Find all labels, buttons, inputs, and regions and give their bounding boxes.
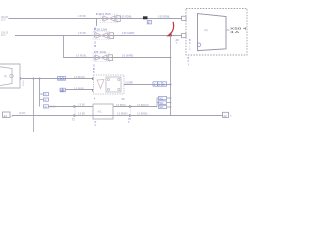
wire W2-W3 drop (vertical at x=63.5) [64, 36, 171, 58]
bus riser (vertical x=170.5 from W2 down to ground bus) [170, 36, 172, 116]
connector X1 wire colour (blue, vertical, inside-left) [189, 39, 191, 52]
wire W6 (relay output, y=84) [124, 84, 171, 86]
wire W4 (from B1, y=78.5) [20, 78, 94, 80]
relay K1 pin ticks [92, 78, 94, 81]
C-b label (blue, below) [128, 119, 131, 124]
svg-text:0.35 RD/BL: 0.35 RD/BL [158, 17, 171, 19]
W4 pin name (blue, vertical) [23, 81, 25, 87]
stubs to riser with junction dots [167, 98, 171, 107]
ground ref boxes left (three) [44, 93, 49, 109]
node label terminal 15 (left of wire 2) [1, 32, 9, 38]
svg-text:12: 12 [223, 114, 227, 118]
relay K1 contact block [106, 77, 121, 92]
relay K1 contact pins [107, 78, 120, 90]
splice S1 on wire W1 (dark) [143, 16, 148, 19]
ground ref boxes right (three) [157, 98, 159, 107]
fuse F3 output terminal box [108, 55, 112, 61]
stub node below wire W1 [96, 19, 98, 27]
svg-text:(2): (2) [4, 75, 7, 78]
connector X1 cavity circle [197, 43, 201, 47]
fuse F2 name (blue, vertical, below) [94, 41, 96, 48]
svg-text:44: 44 [4, 114, 8, 118]
connector X1 designation (dark) [226, 29, 230, 31]
svg-text:0.5 BR/W: 0.5 BR/W [116, 105, 127, 107]
fuse F2 (bowtie in dashed holder) [93, 31, 110, 39]
fuse F1 (bowtie in dashed holder) [101, 14, 118, 22]
fuse F1 output terminal box [116, 16, 120, 22]
stub node name (blue, vertical) [94, 27, 96, 34]
connector X1 housing (trapezoid) [198, 14, 227, 51]
svg-text:0.5 BR/WH: 0.5 BR/WH [137, 105, 149, 107]
svg-text:22.0: 22.0 [1, 20, 6, 22]
svg-text:A/C: A/C [98, 111, 102, 114]
ground bus wire (y=115) [12, 115, 223, 117]
svg-text:4 A: 4 A [230, 30, 239, 34]
W5 continuation number boxes [60, 88, 65, 92]
node label terminal 30 (top-left of wire 1) [1, 17, 9, 22]
svg-text:15A 30: 15A 30 [1, 32, 9, 35]
inline connector pair C-b (arrows) [129, 105, 132, 116]
W6 continuation number boxes [153, 82, 167, 86]
svg-text:30 BK: 30 BK [50, 106, 57, 108]
svg-text:0.35 BK: 0.35 BK [78, 16, 87, 18]
fuse F2 output terminal box [109, 33, 114, 39]
svg-text:(4x): (4x) [204, 30, 208, 32]
W4 pin tick [20, 77, 22, 80]
relay K1 coil (triangle) [97, 80, 104, 89]
fuse F3 (bowtie in dashed holder) [93, 53, 110, 61]
connector X1 pin 2 terminal box [182, 34, 187, 38]
svg-text:0.5 BR/BK: 0.5 BR/BK [137, 113, 148, 115]
ground drop G-a (vertical x=33) [33, 79, 35, 133]
ground point label box (right end) [223, 112, 229, 117]
fuse F3 name (blue, vertical, below) [93, 64, 95, 74]
svg-text:2.5 BR: 2.5 BR [78, 113, 85, 115]
wire W1 (top feed, y=18.5) [9, 18, 183, 20]
svg-text:0.5 BR: 0.5 BR [126, 82, 133, 84]
svg-text:0.35 BK: 0.35 BK [78, 33, 87, 35]
wire W8 (A/C to ground refs, y=106.5) [113, 106, 157, 108]
wire W7 (to A/C box, y=106.5) [49, 106, 94, 108]
inline connector pair C-a (arrows) [74, 105, 77, 116]
junction dot W6/riser [170, 84, 172, 86]
red annotation arrow [171, 22, 174, 33]
svg-text:502: 502 [159, 102, 164, 105]
svg-text:0.35 GN/BK: 0.35 GN/BK [122, 33, 135, 35]
stubs from branch drop to ground ref boxes [40, 94, 44, 100]
svg-text:0.35 RD/BL: 0.35 RD/BL [120, 17, 133, 19]
junction dot W3/riser [170, 57, 172, 59]
svg-text:30 BK: 30 BK [19, 113, 26, 115]
connector X1 (dashed outline, right) [186, 9, 247, 56]
svg-text:0.5 RD/BL: 0.5 RD/BL [76, 56, 87, 58]
M1 name (blue, vertical, below) [95, 121, 97, 127]
svg-text:B: B [94, 44, 96, 48]
svg-text:0.5 BK/BL: 0.5 BK/BL [74, 89, 85, 91]
branch drop (vertical x=39.5) [39, 79, 41, 107]
wire W5 (second relay feed, y=90) [66, 89, 94, 91]
component box B1 (left, with connector face) [0, 64, 20, 88]
B1 connector face (trapezoid) [0, 67, 12, 86]
component box M1 (A/C actuator) [93, 104, 113, 119]
svg-text:0.5 BR/BK: 0.5 BR/BK [117, 113, 128, 115]
svg-text:504: 504 [60, 90, 65, 93]
svg-text:0.5 BK/GN: 0.5 BK/GN [74, 77, 85, 79]
junction dot W4/G-a [33, 78, 35, 80]
svg-text:0.5 GN/RD: 0.5 GN/RD [122, 56, 134, 58]
junction node on wire W2 [169, 34, 172, 37]
relay K1 (dashed box) [94, 75, 125, 94]
node name label (blue, below junction) [176, 39, 180, 45]
svg-text:2.5 BK: 2.5 BK [78, 105, 85, 107]
svg-text:501: 501 [159, 97, 164, 100]
splice S1 reference box (blue) [147, 21, 151, 24]
junction dot W4/branch [39, 78, 41, 80]
B1 cavity circle [10, 74, 13, 77]
ground point label box (left) [3, 112, 11, 118]
svg-text:503: 503 [159, 106, 164, 109]
svg-text:12.0: 12.0 [1, 35, 6, 37]
connector X1 lower label (blue, vertical, below box) [188, 57, 190, 66]
connector X1 pin 1 terminal box [182, 16, 187, 20]
W4 continuation number boxes [58, 77, 66, 81]
wire W2 (second feed, y=35.5) [15, 35, 182, 37]
